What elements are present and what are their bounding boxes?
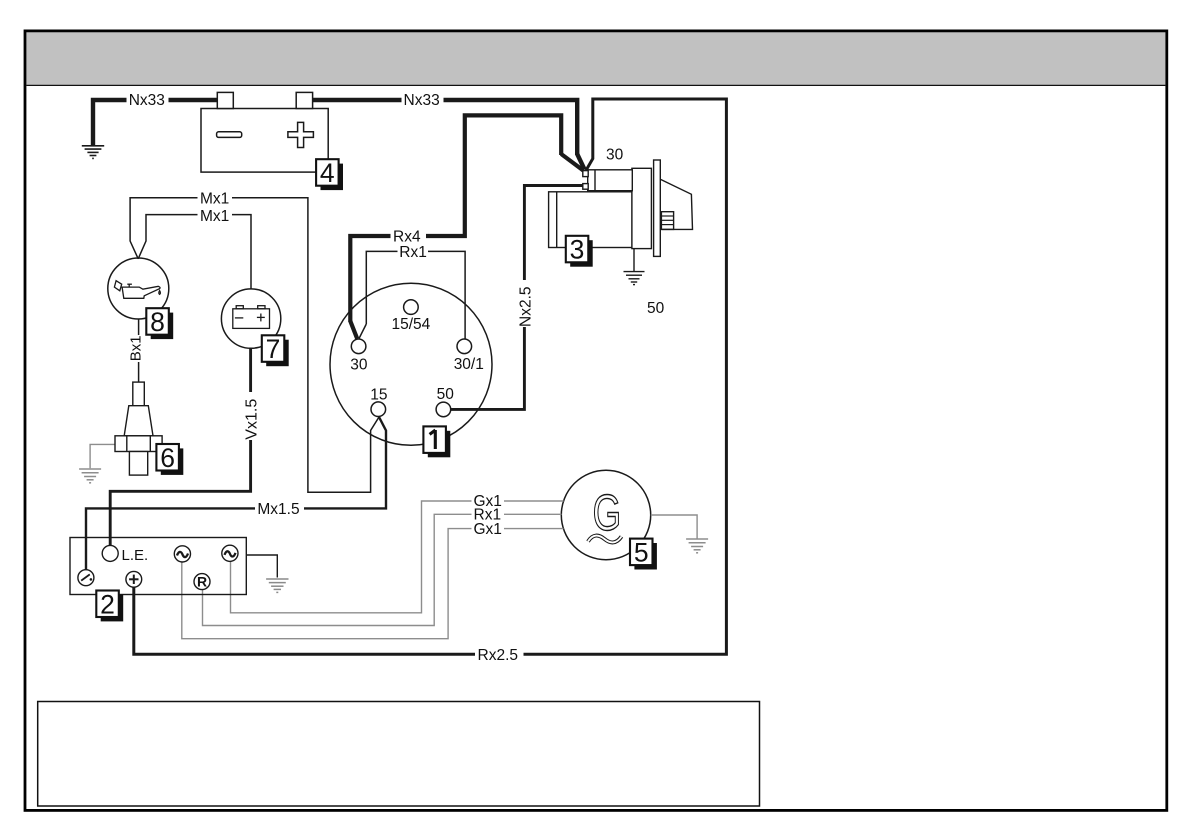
- svg-text:3: 3: [570, 235, 585, 265]
- svg-text:Mx1.5: Mx1.5: [257, 501, 299, 518]
- svg-text:Gx1: Gx1: [474, 521, 502, 538]
- svg-text:G: G: [593, 485, 622, 541]
- svg-text:4: 4: [320, 158, 335, 188]
- svg-text:6: 6: [160, 443, 175, 473]
- svg-text:Vx1.5: Vx1.5: [243, 399, 260, 440]
- svg-text:50: 50: [437, 386, 455, 403]
- svg-text:5: 5: [634, 538, 649, 568]
- svg-text:Mx1: Mx1: [200, 191, 229, 208]
- svg-text:Nx33: Nx33: [404, 92, 440, 109]
- svg-text:R: R: [197, 574, 207, 590]
- svg-text:7: 7: [266, 334, 281, 364]
- svg-text:Nx2.5: Nx2.5: [518, 287, 535, 328]
- svg-text:30: 30: [350, 356, 368, 373]
- svg-text:Bx1: Bx1: [128, 335, 145, 361]
- svg-text:30: 30: [606, 146, 624, 163]
- svg-text:Nx33: Nx33: [129, 92, 165, 109]
- svg-text:Mx1: Mx1: [200, 208, 229, 225]
- svg-text:Rx4: Rx4: [393, 228, 421, 245]
- svg-text:15/54: 15/54: [392, 316, 431, 333]
- svg-text:8: 8: [150, 307, 165, 337]
- svg-text:15: 15: [370, 386, 387, 403]
- svg-text:50: 50: [647, 300, 665, 317]
- svg-text:Rx1: Rx1: [399, 244, 427, 261]
- svg-text:2: 2: [100, 589, 115, 619]
- svg-text:L.E.: L.E.: [122, 547, 149, 564]
- svg-text:30/1: 30/1: [454, 356, 484, 373]
- svg-text:Rx2.5: Rx2.5: [478, 647, 519, 664]
